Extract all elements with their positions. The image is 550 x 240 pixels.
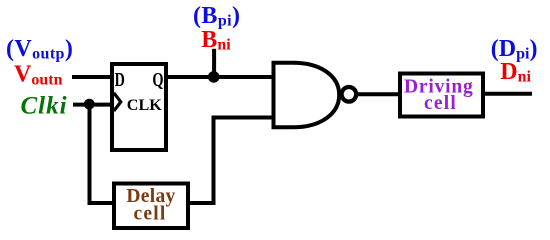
delay cell box [114,184,188,229]
svg-text:cell: cell [424,93,457,114]
wire W6 delay output to NAND lower input [188,118,274,204]
clock edge triangle [114,93,121,111]
svg-text:Clki: Clki [21,93,68,120]
svg-text:Q: Q [152,69,163,91]
svg-text:(Bpi): (Bpi) [193,3,240,30]
nand gate U2 [274,63,340,128]
wire W7 NAND output to driving cell [357,92,400,96]
svg-text:Dni: Dni [500,59,531,86]
wire W5 B stub [212,49,216,77]
wire W3 clk to delay cell [90,105,115,203]
wire W1 Voutn input [72,75,112,79]
wire W2 Clki input [73,103,112,107]
svg-text:CLK: CLK [127,97,163,114]
svg-text:cell: cell [134,204,167,225]
svg-text:(Voutp): (Voutp) [6,36,73,63]
node J2 B junction [208,71,220,83]
node J1 Clki junction [84,99,95,110]
driving cell box [400,74,483,117]
wire W4 Q output to NAND [166,75,274,79]
svg-text:Bni: Bni [201,27,231,54]
svg-text:D: D [115,69,125,91]
wire W8 output [483,92,532,96]
nand bubble [342,87,357,102]
svg-text:Voutn: Voutn [14,61,63,88]
flip-flop U1 box [112,64,166,150]
